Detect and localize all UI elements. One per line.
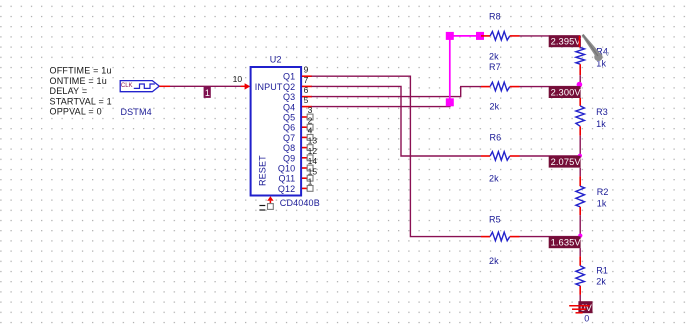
svg-text:RESET: RESET — [257, 155, 267, 186]
wire R8 to node 2.395V — [520, 35, 581, 37]
svg-text:15: 15 — [308, 166, 318, 176]
svg-text:0V: 0V — [580, 303, 592, 313]
svg-text:ONTIME = 1u: ONTIME = 1u — [50, 76, 107, 86]
svg-text:STARTVAL = 1: STARTVAL = 1 — [50, 96, 112, 106]
svg-text:Q4: Q4 — [283, 102, 295, 112]
svg-text:Q8: Q8 — [283, 143, 295, 153]
pin Q1 stub — [302, 75, 312, 77]
DSTM4 parameter labels — [50, 66, 112, 117]
net label 1 — [204, 86, 211, 98]
resistor R3 — [576, 98, 585, 136]
svg-text:U2: U2 — [270, 54, 282, 64]
pin number 11 (rotated) — [259, 206, 265, 211]
bias label 1.635V — [549, 236, 582, 248]
resistor R1 — [576, 248, 585, 295]
voltage probe cursor — [582, 34, 610, 61]
svg-text:0: 0 — [584, 314, 589, 324]
svg-text:4: 4 — [308, 126, 313, 136]
svg-text:2.395V: 2.395V — [551, 37, 582, 47]
svg-text:1: 1 — [205, 88, 210, 98]
resistor R8 — [481, 32, 520, 41]
selection handle 2 — [476, 32, 484, 40]
svg-text:2: 2 — [308, 115, 313, 125]
svg-text:2.075V: 2.075V — [551, 157, 582, 167]
pin DSTM4 output — [159, 85, 170, 87]
svg-text:14: 14 — [308, 156, 318, 166]
ground 0 symbol — [569, 306, 589, 313]
svg-text:Q6: Q6 — [283, 123, 295, 133]
svg-text:Q2: Q2 — [283, 82, 295, 92]
pin U2 INPUT arrow — [241, 83, 251, 89]
svg-text:R7: R7 — [489, 62, 501, 72]
pin Q7 stub with open end — [302, 135, 313, 141]
wire Q2 to R6 — [312, 86, 482, 156]
bias label 2.395V — [549, 35, 582, 47]
pin Q4 stub — [302, 106, 312, 108]
svg-text:10: 10 — [233, 74, 243, 84]
svg-text:Q12: Q12 — [278, 184, 295, 194]
resistor R5 — [481, 232, 520, 241]
pin Q2 stub — [302, 85, 312, 87]
pin RESET (11) with open end — [267, 196, 273, 209]
digital stimulus DSTM4 — [120, 81, 159, 92]
svg-text:R1: R1 — [596, 265, 608, 275]
junction node 2.300V — [577, 82, 583, 88]
wire DSTM4 to U2 INPUT — [170, 85, 241, 87]
ladder wire top node to R4 — [579, 36, 581, 49]
bias label 2.300V — [549, 86, 582, 98]
svg-text:2k: 2k — [489, 174, 499, 184]
svg-text:12: 12 — [308, 146, 318, 156]
svg-text:INPUT: INPUT — [255, 82, 283, 92]
wire R5 to node 1.635V — [520, 236, 581, 238]
wire R4 to junction — [579, 75, 581, 86]
wire Q4 to selected wire — [312, 106, 451, 108]
selection handle 3 — [446, 98, 454, 106]
svg-text:5: 5 — [304, 95, 309, 105]
wire R6 to node 2.075V — [520, 155, 581, 157]
svg-text:1k: 1k — [597, 199, 607, 209]
wire Q3 to R7 — [312, 87, 482, 97]
wire Q1 to R5 — [312, 76, 482, 236]
pin Q5 stub with open end — [302, 114, 313, 120]
resistor R6 — [481, 152, 520, 161]
selected wire Q4 to R8 (magenta) — [450, 36, 480, 104]
svg-text:Q5: Q5 — [283, 113, 295, 123]
wire R3 to junction — [579, 136, 581, 156]
svg-text:2.300V: 2.300V — [551, 88, 582, 98]
svg-text:Q3: Q3 — [283, 92, 295, 102]
svg-text:DSTM4: DSTM4 — [121, 107, 152, 117]
pin Q11 stub with open end — [302, 175, 313, 181]
svg-text:DELAY =: DELAY = — [50, 86, 88, 96]
svg-text:Q7: Q7 — [283, 133, 295, 143]
svg-text:7: 7 — [304, 75, 309, 85]
svg-text:R3: R3 — [596, 107, 608, 117]
bias label 2.075V — [549, 156, 582, 168]
svg-text:R6: R6 — [490, 133, 502, 143]
svg-text:1: 1 — [308, 177, 313, 187]
svg-text:R8: R8 — [489, 12, 501, 22]
wire R7 to node 2.300V — [520, 86, 581, 88]
resistor R7 — [481, 82, 520, 91]
svg-text:CD4040B: CD4040B — [280, 198, 320, 208]
svg-text:Q9: Q9 — [283, 153, 295, 163]
IC U2 CD4040B body — [251, 67, 302, 196]
resistor R2 — [576, 168, 585, 216]
svg-text:2k: 2k — [489, 52, 499, 62]
svg-text:9: 9 — [304, 65, 309, 75]
resistor R4 — [576, 48, 585, 76]
junction node 1.635V — [578, 234, 582, 238]
svg-text:OPPVAL = 0: OPPVAL = 0 — [50, 107, 102, 117]
svg-text:1.635V: 1.635V — [551, 238, 582, 248]
pin Q8 stub with open end — [302, 145, 313, 151]
svg-text:1k: 1k — [596, 119, 606, 129]
svg-text:2k: 2k — [489, 256, 499, 266]
svg-text:Q11: Q11 — [279, 174, 296, 184]
selection handle 1 — [446, 32, 454, 40]
svg-text:R5: R5 — [489, 215, 501, 225]
svg-text:2k: 2k — [596, 277, 606, 287]
svg-text:13: 13 — [308, 136, 318, 146]
svg-text:R2: R2 — [597, 187, 609, 197]
svg-text:CLK: CLK — [121, 83, 133, 89]
pin Q10 stub with open end — [302, 165, 313, 171]
pin Q12 stub with open end — [302, 186, 313, 192]
svg-text:2k: 2k — [490, 102, 500, 112]
pin Q9 stub with open end — [302, 155, 313, 161]
svg-text:OFFTIME = 1u: OFFTIME = 1u — [50, 66, 112, 76]
svg-text:6: 6 — [304, 85, 309, 95]
svg-text:Q1: Q1 — [283, 72, 295, 82]
pin Q6 stub with open end — [302, 124, 313, 130]
svg-text:Q10: Q10 — [278, 164, 295, 174]
svg-text:v: v — [606, 51, 610, 58]
wire R1 to ground — [579, 295, 581, 302]
pin Q3 stub — [302, 96, 312, 98]
wire R2 to junction — [579, 215, 581, 236]
junction node 2.075V — [578, 154, 582, 158]
bias label 0V — [578, 301, 592, 313]
